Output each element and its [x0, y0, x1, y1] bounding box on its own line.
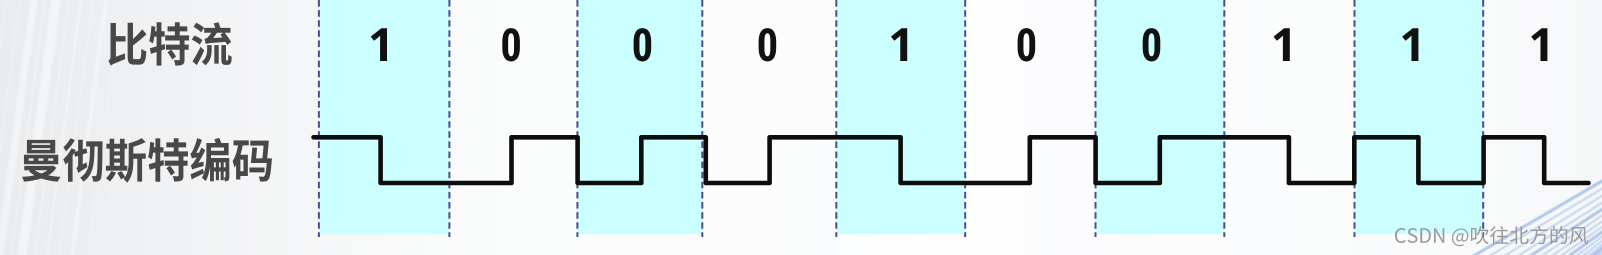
bit value 0: [1143, 28, 1161, 61]
bit value 1: [1531, 28, 1547, 61]
bit value 1: [371, 28, 387, 61]
decorative white fan, bottom-left corner: [0, 0, 137, 255]
bit boundary dashed line 1: [318, 0, 320, 237]
highlighted bit cell 5 (bit 1): [836, 0, 965, 234]
highlighted bit cell 3 (bit 0): [577, 0, 702, 234]
bit boundary dashed line 7: [1095, 0, 1097, 237]
highlighted bit cell 9 (bit 1): [1355, 0, 1484, 234]
bit value 0: [502, 28, 520, 61]
highlighted bit cell 7 (bit 0): [1096, 0, 1225, 234]
manchester encoded waveform: [314, 137, 1589, 183]
bit boundary dashed line 6: [964, 0, 966, 237]
bit value 1: [1274, 28, 1290, 61]
bit value 0: [634, 28, 652, 61]
row label: 比特流 (bit stream): [108, 22, 231, 65]
bit value 0: [1018, 28, 1036, 61]
watermark: CSDN @吹往北方的风: [1395, 226, 1588, 246]
bit value 1: [891, 28, 907, 61]
bit boundary dashed line 2: [448, 0, 450, 237]
row label: 曼彻斯特编码 (Manchester encoding): [22, 138, 272, 183]
bit boundary dashed line 4: [701, 0, 703, 237]
bit boundary dashed line 5: [835, 0, 837, 237]
bit boundary dashed line 8: [1223, 0, 1225, 237]
decorative blue fan, bottom-right corner: [1345, 113, 1602, 255]
bit value 1: [1402, 28, 1418, 61]
bit boundary dashed line 3: [576, 0, 578, 237]
bit value 0: [759, 28, 777, 61]
bit boundary dashed line 9: [1354, 0, 1356, 237]
bit boundary dashed line 10: [1482, 0, 1484, 237]
highlighted bit cell 1 (bit 1): [319, 0, 450, 234]
